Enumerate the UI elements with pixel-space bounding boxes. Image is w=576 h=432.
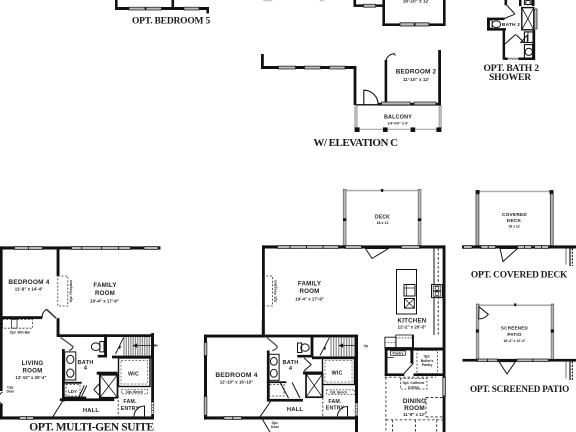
svg-text:BEDROOM 2: BEDROOM 2 <box>396 69 437 76</box>
svg-text:11'-8" x 13': 11'-8" x 13' <box>403 412 424 417</box>
svg-text:Opt. Fireplace: Opt. Fireplace <box>69 280 73 303</box>
svg-text:HALL: HALL <box>83 408 100 414</box>
svg-text:dn: dn <box>154 343 158 347</box>
svg-text:Opt. Fireplace: Opt. Fireplace <box>274 280 278 303</box>
svg-text:18'-4" x 12'-4": 18'-4" x 12'-4" <box>503 339 526 343</box>
svg-text:ROOM: ROOM <box>22 367 42 374</box>
svg-text:FAMILY: FAMILY <box>93 282 117 289</box>
svg-text:12'-10" x 16'-10": 12'-10" x 16'-10" <box>220 380 254 385</box>
svg-text:FAM.: FAM. <box>328 399 342 405</box>
svg-text:ROOM: ROOM <box>299 288 319 295</box>
svg-text:19'-4" x 17'-9": 19'-4" x 17'-9" <box>295 297 324 302</box>
svg-text:14'-00" x 6': 14'-00" x 6' <box>388 121 409 126</box>
svg-text:12'-2" x 20'-5": 12'-2" x 20'-5" <box>398 325 427 330</box>
svg-text:Door: Door <box>271 425 280 429</box>
svg-text:11'-10" x 12': 11'-10" x 12' <box>403 77 429 82</box>
svg-text:W/ ELEVATION C: W/ ELEVATION C <box>313 137 398 149</box>
svg-text:KITCHEN: KITCHEN <box>398 317 427 324</box>
svg-text:Ceiling: Ceiling <box>408 385 419 389</box>
svg-text:PATIO: PATIO <box>507 332 522 337</box>
svg-text:Door: Door <box>7 390 16 394</box>
svg-text:LIVING: LIVING <box>22 360 44 367</box>
svg-text:19'-4" x 17'-9": 19'-4" x 17'-9" <box>90 299 119 304</box>
svg-text:11'-8" x 14'-4": 11'-8" x 14'-4" <box>15 287 43 292</box>
svg-text:Opt. Bench: Opt. Bench <box>330 390 347 394</box>
svg-text:12'-10" x 20'-4": 12'-10" x 20'-4" <box>15 375 46 380</box>
svg-text:Opt. Wet Bar: Opt. Wet Bar <box>10 330 31 334</box>
svg-text:DECK: DECK <box>507 218 522 224</box>
svg-text:Opt. Bench: Opt. Bench <box>126 390 143 394</box>
svg-text:LDY: LDY <box>68 389 77 394</box>
svg-text:COVERED: COVERED <box>502 212 527 218</box>
svg-text:SHOWER: SHOWER <box>489 72 532 83</box>
svg-text:BATH 2: BATH 2 <box>502 22 520 28</box>
svg-text:Pantry: Pantry <box>422 363 433 367</box>
svg-text:OPT. SCREENED PATIO: OPT. SCREENED PATIO <box>470 384 569 394</box>
svg-text:18'-10" x 12': 18'-10" x 12' <box>403 0 429 4</box>
svg-text:FAM.: FAM. <box>123 399 137 405</box>
svg-text:DECK: DECK <box>375 215 390 221</box>
svg-text:18 x 12: 18 x 12 <box>377 221 389 225</box>
svg-text:WIC: WIC <box>128 371 139 377</box>
svg-text:BEDROOM 4: BEDROOM 4 <box>8 279 49 286</box>
svg-text:Pantry: Pantry <box>393 352 404 356</box>
svg-text:BEDROOM 4: BEDROOM 4 <box>215 372 257 379</box>
svg-text:OPT. COVERED DECK: OPT. COVERED DECK <box>471 270 568 280</box>
svg-text:HALL: HALL <box>287 407 304 413</box>
svg-text:FAMILY: FAMILY <box>298 281 322 288</box>
svg-text:18 x 12: 18 x 12 <box>508 224 519 228</box>
svg-text:SCREENED: SCREENED <box>501 326 529 331</box>
svg-text:OPT. BEDROOM 5: OPT. BEDROOM 5 <box>132 16 210 26</box>
svg-text:Up: Up <box>364 344 368 348</box>
svg-text:OPT. MULTI-GEN SUITE: OPT. MULTI-GEN SUITE <box>29 421 154 432</box>
svg-text:DINING: DINING <box>403 398 427 405</box>
svg-text:WIC: WIC <box>331 371 342 377</box>
svg-text:ROOM: ROOM <box>95 290 115 297</box>
